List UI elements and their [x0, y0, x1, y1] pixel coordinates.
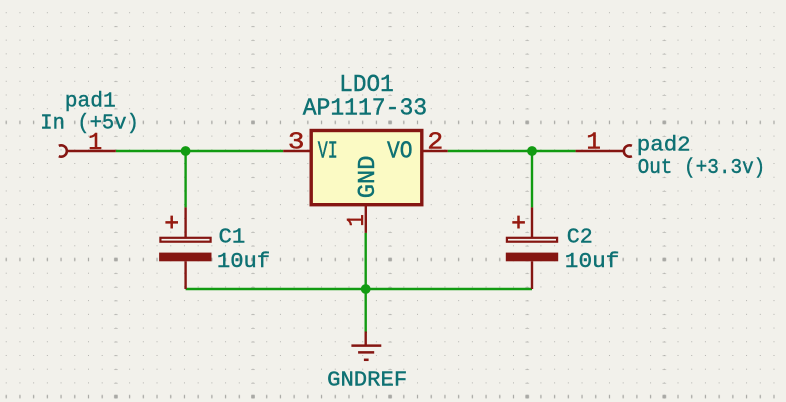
- ground bar 2: [358, 351, 374, 354]
- pin 2 wire to pad2: [576, 150, 625, 152]
- svg-text:GNDREF: GNDREF: [327, 369, 407, 393]
- ground bar 1: [351, 344, 381, 347]
- wire C2 drop: [531, 151, 533, 207]
- ground bar 3: [364, 359, 369, 362]
- svg-text:VO: VO: [387, 138, 413, 165]
- svg-text:1: 1: [344, 214, 371, 226]
- pin 1 (GND): [365, 205, 367, 233]
- connector pad1 symbol: [59, 145, 67, 156]
- svg-text:C1: C1: [219, 226, 246, 250]
- wire GND pin drop: [365, 233, 367, 333]
- pin 1 of pad1: [67, 150, 116, 152]
- capacitor C2 bottom pin: [531, 261, 533, 289]
- capacitor C2 top plate: [507, 238, 557, 242]
- connector pad2 symbol: [624, 145, 632, 156]
- svg-text:10uf: 10uf: [217, 250, 270, 274]
- svg-text:1: 1: [586, 130, 601, 157]
- wire main right (pin VO to Out): [448, 150, 576, 152]
- capacitor C2 bottom plate: [506, 253, 558, 262]
- capacitor C1 top plate: [160, 238, 210, 242]
- junction at C1 tap: [181, 146, 191, 156]
- junction at ground bus: [361, 284, 371, 294]
- svg-text:pad2: pad2: [637, 134, 691, 158]
- wire main left (In to pin VI): [116, 150, 283, 152]
- capacitor C2 plus sign: [512, 216, 525, 229]
- capacitor C1 top pin: [184, 207, 186, 237]
- wire C1 drop: [184, 151, 186, 207]
- svg-text:VI: VI: [318, 138, 338, 165]
- svg-text:pad1: pad1: [65, 89, 116, 113]
- capacitor C1 plus sign: [165, 216, 178, 229]
- pin 3 (VI): [283, 150, 309, 152]
- svg-text:AP1117-33: AP1117-33: [303, 96, 427, 123]
- svg-text:10uf: 10uf: [565, 250, 620, 274]
- junction at C2 tap: [527, 146, 537, 156]
- capacitor C1 bottom pin: [184, 261, 186, 289]
- capacitor C2 top pin: [531, 207, 533, 237]
- svg-text:In (+5v): In (+5v): [40, 112, 139, 136]
- capacitor C1 bottom plate: [159, 253, 211, 262]
- svg-text:C2: C2: [567, 226, 593, 250]
- svg-text:2: 2: [427, 130, 443, 157]
- regulator U1 body: [311, 131, 422, 205]
- svg-text:Out (+3.3v): Out (+3.3v): [638, 156, 766, 180]
- svg-text:GND: GND: [355, 156, 382, 199]
- svg-text:3: 3: [288, 130, 305, 157]
- power symbol GNDREF pin: [365, 332, 367, 346]
- wire bottom ground bus: [186, 288, 532, 290]
- pin 2 (VO): [422, 150, 448, 152]
